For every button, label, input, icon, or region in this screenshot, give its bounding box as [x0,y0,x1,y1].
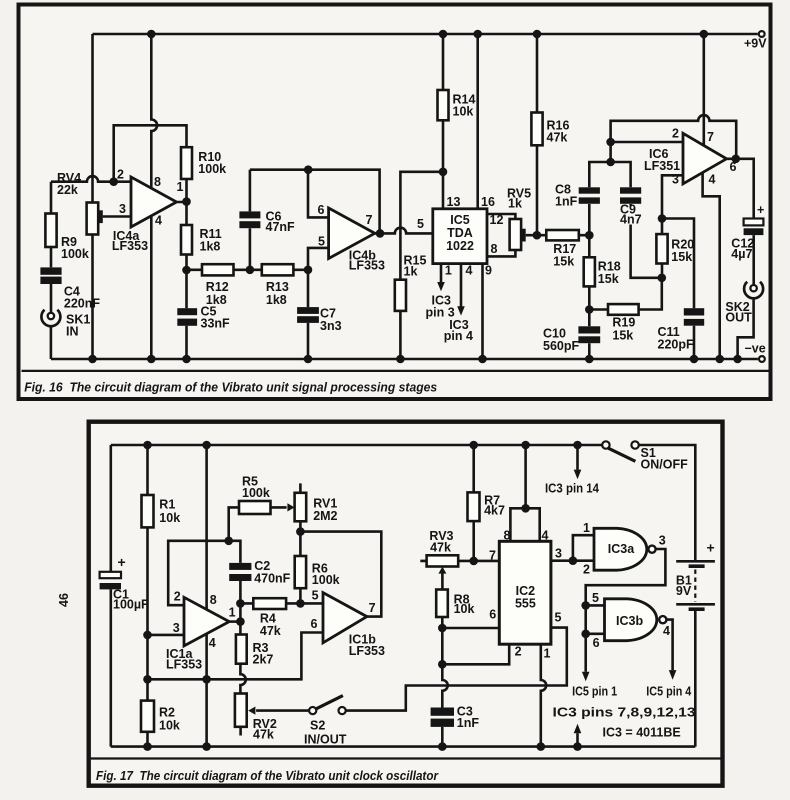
svg-text:1k8: 1k8 [200,240,221,254]
svg-text:1nF: 1nF [457,716,480,730]
svg-text:47nF: 47nF [266,220,296,234]
svg-text:12: 12 [490,213,504,227]
svg-text:R2: R2 [159,705,175,719]
svg-text:4: 4 [155,214,162,228]
svg-text:8: 8 [154,175,161,189]
svg-text:470nF: 470nF [254,571,290,585]
svg-text:3n3: 3n3 [320,319,342,333]
svg-text:1k: 1k [508,197,522,211]
svg-text:6: 6 [730,160,737,174]
svg-text:100k: 100k [61,247,89,261]
svg-text:220nF: 220nF [64,297,100,311]
svg-text:47k: 47k [253,727,274,741]
svg-text:pin 4: pin 4 [444,329,473,343]
svg-text:4: 4 [663,624,670,638]
svg-text:15k: 15k [612,329,633,343]
svg-text:2M2: 2M2 [313,509,337,523]
svg-text:LF351: LF351 [644,159,680,173]
svg-text:47k: 47k [260,624,281,638]
svg-text:15k: 15k [553,255,574,269]
svg-text:560pF: 560pF [543,339,579,353]
svg-text:1022: 1022 [446,239,474,253]
svg-text:47k: 47k [430,541,451,555]
svg-text:5: 5 [318,235,325,249]
svg-text:R19: R19 [612,316,635,330]
svg-text:1k8: 1k8 [266,293,287,307]
svg-text:LF353: LF353 [349,259,385,273]
svg-text:TDA: TDA [447,226,473,240]
svg-text:Fig. 17 The circuit diagram o: Fig. 17 The circuit diagram of the Vibra… [96,768,439,783]
svg-text:6: 6 [318,203,325,217]
svg-text:7: 7 [707,130,714,144]
svg-text:IN/OUT: IN/OUT [304,733,347,747]
svg-text:2: 2 [117,168,124,182]
svg-text:8: 8 [504,529,511,543]
svg-text:IC3a: IC3a [608,542,635,556]
svg-text:5: 5 [312,588,319,602]
svg-text:4µ7: 4µ7 [731,247,752,261]
svg-text:10k: 10k [159,718,180,732]
svg-text:R13: R13 [266,280,289,294]
svg-text:+: + [707,540,715,556]
svg-text:+9V: +9V [744,37,767,51]
svg-text:4k7: 4k7 [484,503,505,517]
svg-text:2: 2 [583,562,590,576]
svg-text:220pF: 220pF [658,338,694,352]
svg-text:4: 4 [709,173,716,187]
svg-text:555: 555 [515,597,536,611]
svg-text:100k: 100k [198,162,226,176]
svg-text:4: 4 [466,264,473,278]
svg-text:1: 1 [583,521,590,535]
svg-text:IC5: IC5 [450,213,470,227]
svg-text:46: 46 [57,593,71,607]
svg-text:5: 5 [555,611,562,625]
svg-text:3: 3 [555,547,562,561]
svg-text:10k: 10k [454,602,475,616]
svg-text:7: 7 [366,213,373,227]
svg-text:+: + [118,554,126,570]
svg-text:1: 1 [445,264,452,278]
svg-text:1k: 1k [404,265,418,279]
svg-text:15k: 15k [598,272,619,286]
svg-text:2: 2 [174,590,181,604]
svg-text:100k: 100k [312,573,340,587]
svg-text:3: 3 [672,173,679,187]
svg-text:IC3b: IC3b [616,614,643,628]
svg-text:47k: 47k [547,131,568,145]
svg-text:3: 3 [119,202,126,216]
svg-text:7: 7 [489,549,496,563]
svg-text:5: 5 [417,217,424,231]
svg-text:10k: 10k [159,511,180,525]
svg-text:3: 3 [173,621,180,635]
svg-text:LF353: LF353 [112,239,148,253]
svg-text:2: 2 [515,644,522,658]
svg-text:6: 6 [311,617,318,631]
svg-text:4: 4 [209,636,216,650]
svg-text:8: 8 [210,593,217,607]
svg-text:13: 13 [447,195,461,209]
svg-text:ON/OFF: ON/OFF [641,458,689,472]
svg-text:R12: R12 [206,280,229,294]
svg-text:+: + [757,203,764,217]
svg-text:1: 1 [177,180,184,194]
svg-text:5: 5 [592,591,599,605]
svg-text:IC5 pin 4: IC5 pin 4 [646,685,691,699]
svg-text:LF353: LF353 [166,658,202,672]
svg-text:Fig. 16 The circuit diagram o: Fig. 16 The circuit diagram of the Vibra… [24,380,437,395]
svg-text:IC3 = 4011BE: IC3 = 4011BE [603,726,681,740]
svg-text:10k: 10k [453,105,474,119]
svg-text:22k: 22k [57,183,78,197]
svg-text:1nF: 1nF [555,195,578,209]
svg-text:15k: 15k [671,250,692,264]
svg-text:S2: S2 [310,719,325,733]
svg-text:33nF: 33nF [201,317,231,331]
svg-text:OUT: OUT [725,311,752,325]
svg-text:1: 1 [544,647,551,661]
svg-text:8: 8 [491,242,498,256]
svg-text:LF353: LF353 [349,644,385,658]
svg-text:4: 4 [542,529,549,543]
svg-text:IC3 pins 7,8,9,12,13: IC3 pins 7,8,9,12,13 [553,705,696,720]
svg-text:IN: IN [66,325,79,339]
svg-text:3: 3 [659,533,666,547]
svg-text:2k7: 2k7 [253,653,274,667]
svg-text:6: 6 [593,636,600,650]
svg-text:16: 16 [481,195,495,209]
svg-text:9: 9 [485,264,492,278]
svg-text:100µF: 100µF [113,598,149,612]
svg-text:9V: 9V [676,584,692,598]
svg-text:2: 2 [672,127,679,141]
svg-text:IC5 pin 1: IC5 pin 1 [572,685,617,699]
svg-text:−ve: −ve [745,342,766,356]
svg-text:4n7: 4n7 [620,213,642,227]
svg-text:IC3 pin 14: IC3 pin 14 [545,482,599,496]
svg-text:7: 7 [369,601,376,615]
svg-text:6: 6 [489,608,496,622]
svg-text:R1: R1 [159,498,175,512]
svg-text:1: 1 [229,606,236,620]
svg-text:100k: 100k [242,486,270,500]
